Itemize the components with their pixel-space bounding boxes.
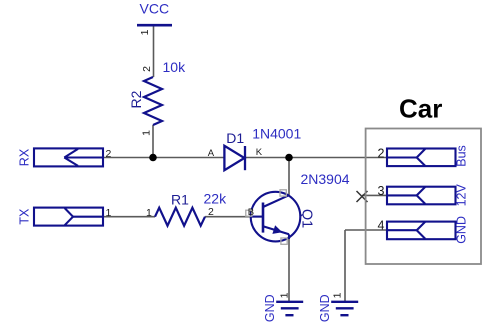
svg-text:RX: RX: [18, 148, 32, 166]
svg-text:GND: GND: [318, 294, 332, 322]
svg-text:K: K: [256, 147, 263, 158]
svg-text:2: 2: [106, 148, 112, 160]
svg-text:12V: 12V: [455, 184, 469, 207]
svg-text:22k: 22k: [204, 190, 228, 206]
svg-text:1: 1: [139, 29, 151, 35]
svg-text:GND: GND: [455, 216, 469, 244]
svg-text:2N3904: 2N3904: [301, 171, 350, 187]
svg-text:1: 1: [146, 207, 152, 219]
svg-text:1: 1: [140, 130, 152, 136]
svg-text:R2: R2: [128, 90, 144, 108]
svg-text:1: 1: [279, 292, 291, 298]
svg-text:2: 2: [208, 206, 214, 218]
svg-text:TX: TX: [18, 208, 32, 225]
svg-text:1N4001: 1N4001: [252, 125, 301, 141]
svg-text:3: 3: [378, 184, 385, 198]
svg-text:1: 1: [106, 207, 112, 219]
svg-text:R1: R1: [171, 192, 189, 208]
svg-text:Q1: Q1: [299, 209, 315, 228]
svg-text:Car: Car: [399, 93, 442, 123]
svg-text:2: 2: [141, 66, 153, 72]
svg-text:2: 2: [378, 146, 385, 160]
svg-text:GND: GND: [263, 294, 277, 322]
svg-text:1: 1: [332, 292, 344, 298]
svg-text:D1: D1: [226, 130, 244, 146]
svg-text:4: 4: [378, 219, 385, 233]
svg-text:VCC: VCC: [140, 1, 170, 17]
svg-text:Bus: Bus: [455, 145, 469, 167]
svg-text:10k: 10k: [163, 59, 187, 75]
svg-text:A: A: [208, 148, 215, 159]
svg-text:B: B: [248, 207, 254, 218]
